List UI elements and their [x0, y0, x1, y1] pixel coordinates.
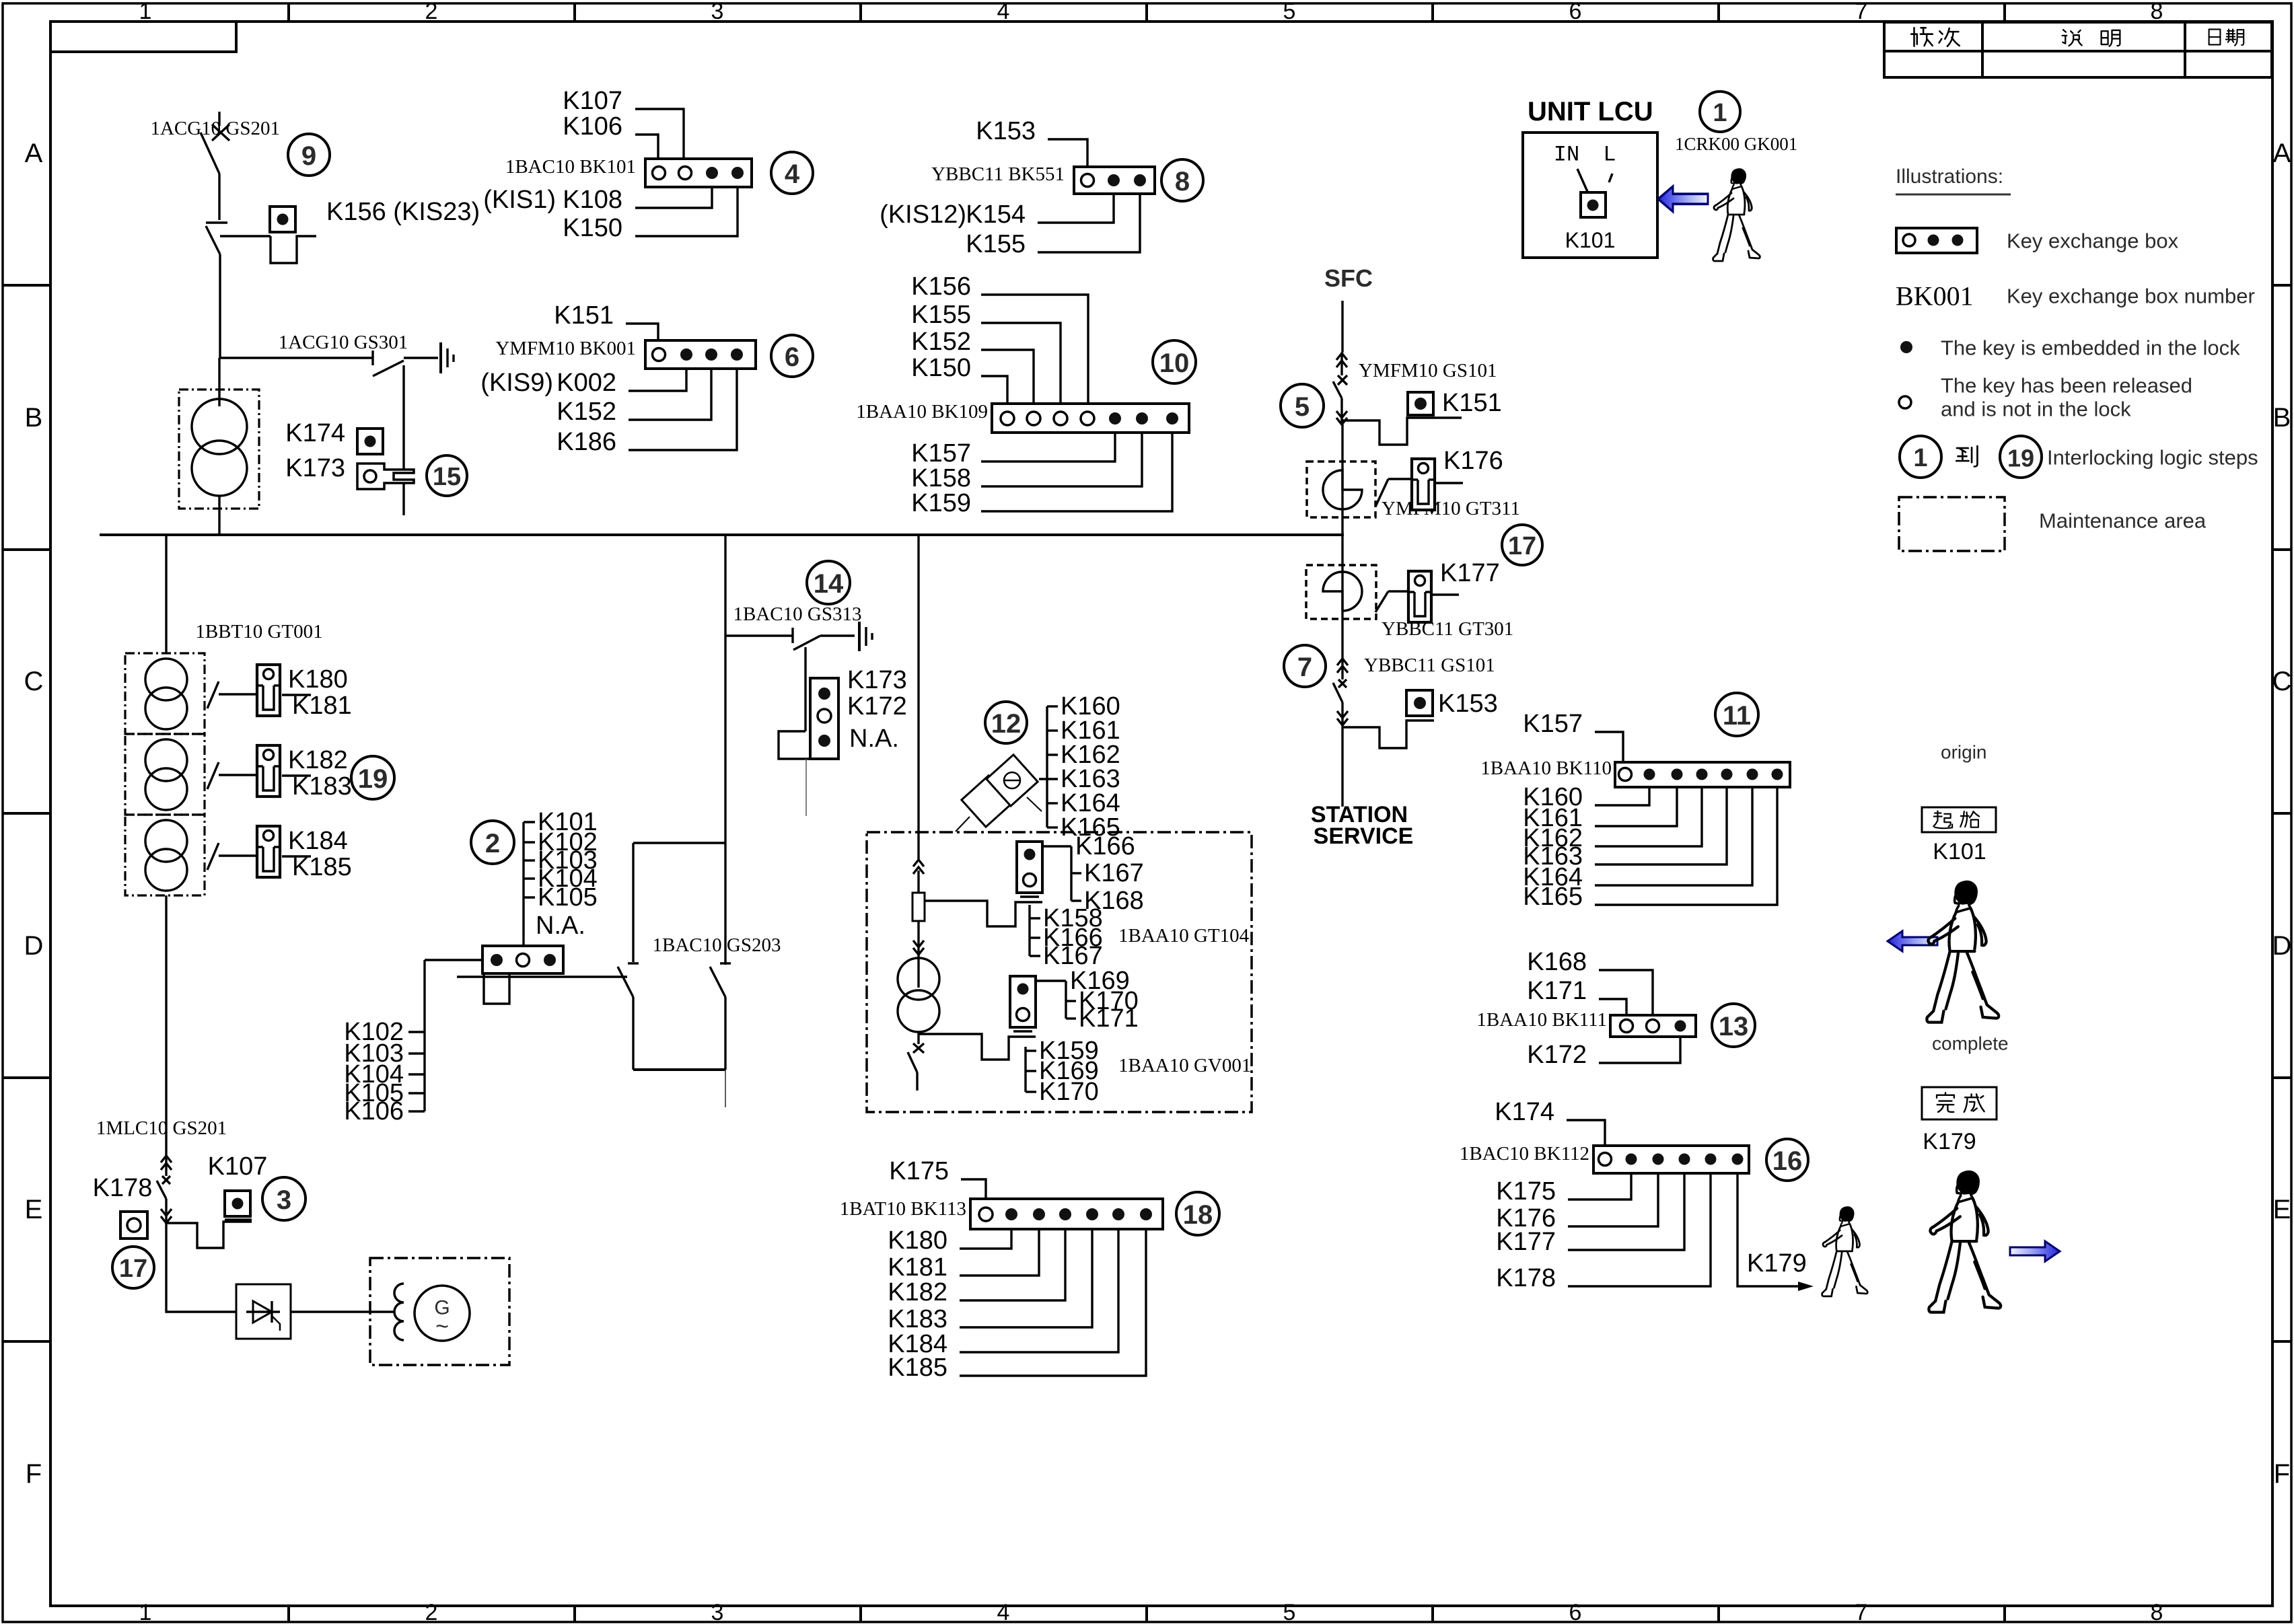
label K158 to BK109 [911, 433, 1142, 492]
svg-text:1BBT10 GT001: 1BBT10 GT001 [195, 621, 322, 642]
label K168 to BK111 [1527, 948, 1653, 1015]
wire rectifier to generator [291, 1311, 394, 1313]
svg-text:K185: K185 [292, 853, 352, 881]
key exchange box N.A. (step 2) [482, 946, 563, 1004]
svg-text:E: E [25, 1195, 43, 1224]
step 17 [1502, 525, 1542, 565]
svg-text:K101: K101 [1565, 228, 1616, 252]
row labels right [2272, 139, 2292, 1489]
legend embedded key [1900, 336, 2240, 360]
step 11 [1715, 693, 1758, 736]
winding switch 1 [207, 681, 311, 708]
svg-text:K159: K159 [911, 489, 971, 517]
UNIT LCU panel box [1523, 133, 1657, 258]
label K155 to BK551 [966, 194, 1140, 258]
K179 output arrow from BK112 [1737, 1173, 1814, 1291]
legend interlocking steps [1900, 436, 2258, 478]
label K175 to BK112 [1496, 1173, 1631, 1206]
svg-text:1ACG10 GS201: 1ACG10 GS201 [150, 118, 280, 139]
svg-text:B: B [25, 403, 43, 433]
step 13 [1712, 1004, 1755, 1047]
svg-text:K154: K154 [966, 200, 1026, 229]
label K157 to BK110 [1523, 710, 1623, 762]
label K181 to BK113 [888, 1229, 1039, 1282]
generator G circle [415, 1286, 470, 1341]
row labels left [24, 139, 44, 1489]
drop from bus to GT001 [165, 535, 167, 653]
svg-text:3: 3 [711, 0, 724, 24]
svg-text:14: 14 [814, 569, 844, 599]
svg-text:(KIS1): (KIS1) [483, 186, 556, 214]
svg-text:K167: K167 [1043, 942, 1103, 970]
svg-text:K106: K106 [563, 112, 622, 141]
svg-text:7: 7 [1855, 0, 1868, 24]
svg-text:K178: K178 [93, 1174, 153, 1202]
lock K156 (KIS23) [220, 198, 480, 263]
svg-text:19: 19 [358, 764, 388, 794]
label (KIS12) K154 to BK551 [880, 194, 1114, 229]
svg-text:YMFM10 BK001: YMFM10 BK001 [495, 338, 636, 359]
svg-text:K171: K171 [1079, 1004, 1139, 1033]
key exchange box 1BAA10 BK111 [1476, 1009, 1696, 1037]
label K150 to BK101 [563, 187, 738, 242]
label K155 to BK109 [911, 301, 1061, 404]
svg-text:K107: K107 [208, 1152, 268, 1181]
lock K101 (UNIT LCU) [1565, 192, 1616, 252]
key exchange box 1BAA10 BK110 [1480, 758, 1790, 787]
label K174 to BK112 [1495, 1098, 1605, 1146]
svg-text:D: D [2272, 931, 2292, 961]
step 15 [427, 455, 467, 496]
svg-text:K181: K181 [292, 692, 352, 720]
label K160 to BK110 [1523, 783, 1649, 811]
lock K151 on jog wire [1342, 389, 1502, 445]
step 3 [262, 1177, 306, 1220]
svg-text:K173: K173 [847, 666, 907, 694]
svg-text:K152: K152 [911, 328, 971, 356]
label K176 to BK112 [1496, 1173, 1658, 1232]
svg-text:K174: K174 [1495, 1098, 1554, 1126]
svg-text:5: 5 [1283, 0, 1296, 24]
svg-text:A: A [2273, 139, 2291, 168]
svg-text:A: A [25, 139, 43, 168]
step 18 [1176, 1192, 1219, 1235]
svg-text:K168: K168 [1527, 948, 1587, 976]
svg-text:Key exchange box: Key exchange box [2007, 229, 2179, 253]
thyristor rectifier box [236, 1284, 291, 1339]
label (KIS1) K108 to BK101 [483, 186, 712, 214]
svg-text:18: 18 [1183, 1200, 1213, 1230]
svg-text:K176: K176 [1443, 447, 1503, 475]
svg-text:1BAC10 GS203: 1BAC10 GS203 [653, 934, 781, 956]
jog wire fuse to upper key [925, 901, 1042, 926]
step 10 [1153, 340, 1196, 383]
truck disconnector 1MLC10 GS201 [157, 1156, 172, 1223]
title block header 版次 [1911, 28, 1960, 46]
label K165 to BK110 [1523, 787, 1777, 911]
svg-text:1BAT10 BK113: 1BAT10 BK113 [840, 1198, 966, 1220]
svg-text:K150: K150 [911, 354, 971, 382]
top column ticks [289, 3, 2005, 22]
bracket K159/K169/K170 [1026, 1037, 1099, 1106]
svg-text:7: 7 [1855, 1600, 1868, 1624]
svg-text:1BAC10 BK101: 1BAC10 BK101 [505, 156, 636, 178]
svg-text:4: 4 [997, 0, 1010, 24]
transformer 2-winding in dashed box (GS201 bay) [179, 358, 259, 535]
svg-text:6: 6 [1569, 0, 1582, 24]
step 6 [771, 335, 813, 377]
maintenance area box GT104/GV001 [867, 832, 1252, 1112]
step 1 [1700, 91, 1740, 132]
svg-text:1BAA10 BK110: 1BAA10 BK110 [1480, 758, 1612, 779]
aux transformer in GT104 [898, 958, 939, 1032]
svg-text:YMFM10 GT311: YMFM10 GT311 [1382, 498, 1520, 519]
label K185 to BK113 [888, 1229, 1146, 1382]
svg-text:8: 8 [2151, 0, 2163, 24]
svg-text:4: 4 [785, 159, 800, 189]
svg-text:2: 2 [425, 0, 438, 24]
label K164 to BK110 [1523, 787, 1752, 891]
svg-text:2: 2 [485, 829, 500, 858]
svg-text:K179: K179 [1923, 1129, 1976, 1154]
label K182 to BK113 [888, 1229, 1065, 1306]
label K156 to BK109 [911, 272, 1088, 404]
svg-text:7: 7 [1297, 653, 1312, 682]
label K163 to BK110 [1523, 787, 1727, 871]
STATION SERVICE label [1311, 802, 1413, 849]
svg-text:SERVICE: SERVICE [1314, 823, 1414, 849]
converter dashed box YBBC11 GT301 [1306, 565, 1513, 647]
step 12 [985, 702, 1027, 743]
key K182 K183 [257, 745, 352, 801]
disconnector 1BAC10 GS203 right pole [710, 963, 731, 1070]
svg-text:K158: K158 [911, 464, 971, 492]
svg-text:K177: K177 [1440, 559, 1500, 587]
wire to GS301 [219, 357, 373, 359]
svg-text:C: C [2272, 667, 2292, 696]
svg-text:K107: K107 [563, 87, 622, 115]
svg-text:19: 19 [2007, 445, 2034, 472]
label K152 to BK001 [557, 369, 711, 426]
svg-text:K153: K153 [976, 117, 1036, 145]
lock K174 [285, 419, 383, 454]
svg-text:K106: K106 [344, 1097, 404, 1125]
svg-text:13: 13 [1719, 1012, 1749, 1041]
lock K107 on jog wire [166, 1152, 267, 1248]
earthing switch 1BAC10 GS313 [725, 603, 872, 731]
key exchange box 1BAA10 BK109 [856, 401, 1189, 433]
svg-text:K184: K184 [288, 827, 348, 855]
title block table top-right [1884, 22, 2272, 77]
converter dashed box YMFM10 GT311 [1307, 422, 1520, 573]
svg-text:K171: K171 [1527, 977, 1587, 1005]
svg-text:K166: K166 [1075, 832, 1135, 860]
key box K173/K172/N.A. (GS313) [779, 666, 907, 816]
label K184 to BK113 [888, 1229, 1118, 1358]
disconnector 1ACG10 GS201 [150, 112, 280, 220]
svg-text:YMFM10 GS101: YMFM10 GS101 [1359, 360, 1497, 381]
svg-text:1BAA10 BK111: 1BAA10 BK111 [1476, 1009, 1607, 1031]
svg-text:K174: K174 [285, 419, 345, 447]
svg-text:1CRK00 GK001: 1CRK00 GK001 [1675, 134, 1797, 154]
person large walking [1929, 1171, 2001, 1312]
svg-text:complete: complete [1932, 1033, 2009, 1054]
svg-text:B: B [2273, 403, 2291, 433]
bottom column ticks [289, 1606, 2005, 1622]
generator stepup transformer 1BBT10 GT001 [125, 621, 323, 895]
label K157 to BK109 [911, 433, 1115, 468]
key K184 K185 [257, 826, 352, 881]
svg-text:origin: origin [1941, 742, 1986, 763]
svg-text:UNIT LCU: UNIT LCU [1528, 97, 1653, 126]
svg-text:D: D [24, 931, 44, 961]
step 19 [351, 756, 394, 799]
earthing truck symbol (step 12) [956, 755, 1042, 832]
label K107 to BK101 [563, 87, 684, 159]
step 14 [807, 561, 850, 604]
svg-text:11: 11 [1723, 701, 1751, 731]
left row ticks [3, 285, 50, 1341]
svg-text:K178: K178 [1496, 1264, 1556, 1292]
svg-text:K175: K175 [1496, 1177, 1556, 1206]
svg-text:K180: K180 [288, 665, 348, 694]
svg-text:4: 4 [997, 1600, 1010, 1624]
bracket K160-K165 [1039, 692, 1120, 842]
svg-text:6: 6 [1569, 1600, 1582, 1624]
jog wire transformer to lower key [919, 1034, 1036, 1060]
svg-text:5: 5 [1295, 392, 1310, 422]
svg-text:K157: K157 [911, 439, 971, 468]
svg-text:K175: K175 [889, 1157, 949, 1185]
fuse [912, 871, 925, 988]
column labels bottom [139, 1600, 2163, 1624]
step 16 [1766, 1139, 1808, 1181]
wire from N.A. box to K102 bracket [344, 960, 482, 1125]
label K162 to BK110 [1523, 787, 1702, 852]
label K150 to BK109 [911, 354, 1007, 404]
legend key exchange box [1896, 228, 2179, 253]
person origin [1927, 881, 1999, 1022]
svg-text:1BAC10 BK112: 1BAC10 BK112 [1460, 1143, 1589, 1165]
column labels top [139, 0, 2163, 24]
svg-text:K157: K157 [1523, 710, 1583, 738]
svg-text:The key has been released: The key has been released [1941, 374, 2192, 398]
svg-text:2: 2 [425, 1600, 438, 1624]
key K173 [285, 454, 414, 489]
svg-text:1: 1 [1913, 444, 1927, 472]
svg-text:K182: K182 [888, 1278, 947, 1306]
step 5 [1281, 384, 1324, 427]
svg-text:E: E [2273, 1195, 2291, 1224]
svg-text:K170: K170 [1039, 1078, 1099, 1106]
svg-text:K101: K101 [1933, 839, 1986, 864]
svg-text:K186: K186 [557, 428, 616, 456]
svg-text:K167: K167 [1084, 859, 1144, 887]
truck symbol upper YMFM10 GS101 [1333, 353, 1497, 425]
svg-text:K185: K185 [888, 1354, 947, 1382]
svg-text:K173: K173 [285, 454, 345, 482]
SFC feeder wire [1341, 301, 1343, 353]
main bus [100, 533, 1344, 536]
label K172 to BK111 [1527, 1037, 1680, 1069]
svg-text:K153: K153 [1438, 690, 1498, 718]
key exchange box YMFM10 BK001 [495, 338, 756, 369]
top-left revision box [50, 22, 236, 52]
svg-text:K181: K181 [888, 1253, 947, 1282]
svg-text:3: 3 [711, 1600, 724, 1624]
svg-text:9: 9 [301, 141, 316, 171]
svg-text:K151: K151 [1442, 389, 1502, 417]
svg-text:1ACG10 GS301: 1ACG10 GS301 [279, 332, 408, 353]
key K177 [1375, 559, 1500, 622]
label K180 to BK113 [888, 1226, 1011, 1255]
earthing switch 1ACG10 GS301 [279, 332, 454, 515]
完成 box [1922, 1087, 1997, 1119]
blue arrow to LCU [1658, 186, 1708, 212]
svg-text:BK001: BK001 [1896, 281, 1974, 311]
label K106 to BK101 [563, 112, 658, 159]
wire under N.A. box [457, 975, 627, 977]
svg-text:K151: K151 [554, 301, 614, 330]
Illustrations heading [1896, 165, 2011, 194]
wire GT001 to 1MLC10 GS201 [165, 895, 167, 1156]
svg-text:1: 1 [1713, 99, 1727, 127]
svg-text:K183: K183 [292, 772, 352, 801]
svg-text:F: F [26, 1459, 42, 1489]
svg-text:~: ~ [435, 1314, 449, 1339]
svg-text:Maintenance area: Maintenance area [2039, 509, 2207, 533]
svg-text:L: L [1603, 143, 1616, 168]
key exchange box 1BAC10 BK112 [1460, 1143, 1749, 1173]
svg-text:The key is embedded in the loc: The key is embedded in the lock [1941, 336, 2240, 360]
label K175 to BK113 [889, 1157, 986, 1199]
svg-text:K156 (KIS23): K156 (KIS23) [326, 198, 480, 226]
switch below transformer (GV001) [908, 1032, 924, 1091]
GS203 branch loop top [633, 843, 725, 962]
svg-text:8: 8 [2151, 1600, 2163, 1624]
svg-text:K183: K183 [888, 1305, 947, 1333]
svg-text:1BAA10 GV001: 1BAA10 GV001 [1118, 1055, 1251, 1076]
svg-text:10: 10 [1159, 348, 1190, 378]
person small walking [1822, 1207, 1868, 1296]
svg-text:K152: K152 [557, 398, 616, 426]
label K152 to BK109 [911, 328, 1034, 404]
blue arrow origin [1888, 931, 1937, 951]
svg-text:3: 3 [277, 1185, 291, 1215]
step 2 [471, 821, 514, 864]
breaker switch below GS201 [206, 223, 227, 358]
svg-text:Key exchange box number: Key exchange box number [2007, 285, 2255, 308]
svg-text:6: 6 [785, 342, 799, 372]
svg-text:N.A.: N.A. [849, 725, 899, 753]
legend maintenance area [1899, 497, 2207, 551]
chevrons above transformer [913, 940, 924, 955]
svg-text:17: 17 [1508, 532, 1536, 560]
svg-text:C: C [24, 667, 44, 696]
svg-text:F: F [2274, 1459, 2290, 1489]
svg-text:N.A.: N.A. [536, 912, 585, 940]
step 4 [771, 152, 813, 194]
generator dashed box [370, 1258, 509, 1365]
svg-text:K172: K172 [1527, 1041, 1587, 1069]
svg-text:1BAA10 BK109: 1BAA10 BK109 [856, 401, 988, 422]
svg-text:K182: K182 [288, 746, 348, 774]
svg-text:1: 1 [139, 1600, 152, 1624]
svg-text:1BAC10 GS313: 1BAC10 GS313 [733, 603, 862, 625]
label K153 to BK551 [976, 117, 1087, 167]
truck symbol lower YBBC11 GS101 [1333, 647, 1495, 727]
svg-text:17: 17 [119, 1255, 147, 1283]
svg-text:YBBC11 GT301: YBBC11 GT301 [1382, 618, 1513, 640]
svg-text:K155: K155 [911, 301, 971, 329]
label K171 to BK111 [1527, 977, 1626, 1015]
label K151 to BK001 [554, 301, 658, 340]
svg-text:K165: K165 [1523, 883, 1583, 911]
field winding coil [394, 1284, 404, 1340]
svg-text:K002: K002 [557, 369, 616, 397]
step 17 lower [112, 1247, 154, 1288]
起始 box [1922, 807, 1996, 832]
drop from bus to GT104 [917, 535, 919, 860]
svg-text:K108: K108 [563, 186, 622, 214]
key K178 (released) [93, 1174, 153, 1239]
svg-text:1BAA10 GT104: 1BAA10 GT104 [1118, 925, 1250, 947]
svg-text:K150: K150 [563, 214, 622, 242]
winding switch 3 [207, 843, 311, 870]
svg-text:K155: K155 [966, 230, 1026, 258]
svg-text:15: 15 [433, 463, 461, 491]
blue arrow complete [2010, 1241, 2060, 1261]
key exchange box 1BAT10 BK113 [840, 1198, 1163, 1229]
key exchange box 1BAC10 BK101 [505, 156, 752, 187]
legend BK001 [1896, 281, 2255, 311]
label K178 to BK112 [1496, 1173, 1711, 1292]
disconnector 1BAC10 GS203 left pole [618, 963, 639, 1070]
label K161 to BK110 [1523, 787, 1677, 832]
key K180 K181 [257, 665, 352, 720]
svg-text:K179: K179 [1747, 1249, 1807, 1278]
right row ticks [2272, 285, 2291, 1341]
key K176 [1375, 447, 1503, 510]
svg-text:8: 8 [1175, 167, 1190, 196]
svg-text:YBBC11 BK551: YBBC11 BK551 [931, 163, 1065, 185]
bracket K158/K166/K167 [1030, 904, 1103, 970]
svg-text:K172: K172 [847, 692, 907, 721]
label K159 to BK109 [911, 433, 1172, 517]
svg-text:YBBC11 GS101: YBBC11 GS101 [1364, 655, 1495, 676]
title block header 说明 [2063, 30, 2120, 46]
step 9 [288, 134, 330, 176]
label K183 to BK113 [888, 1229, 1092, 1333]
label K186 to BK001 [557, 369, 737, 456]
label K177 to BK112 [1496, 1173, 1684, 1256]
winding switch 2 [207, 762, 311, 789]
svg-text:K180: K180 [888, 1226, 947, 1255]
svg-text:16: 16 [1772, 1146, 1803, 1176]
bracket K101-K105 [524, 808, 598, 946]
truck chevrons at GT104 entry [913, 860, 924, 874]
label (KIS9) K002 to BK001 [480, 369, 686, 397]
IN / L selector [1554, 143, 1616, 194]
step 7 [1284, 645, 1326, 687]
svg-text:and is not in the lock: and is not in the lock [1941, 398, 2131, 421]
svg-text:Interlocking logic steps: Interlocking logic steps [2047, 446, 2258, 470]
key exchange box YBBC11 BK551 [931, 163, 1155, 194]
lock K153 on jog wire [1342, 690, 1498, 748]
svg-text:IN: IN [1554, 143, 1579, 168]
svg-text:SFC: SFC [1324, 264, 1373, 292]
svg-text:1MLC10 GS201: 1MLC10 GS201 [96, 1117, 227, 1139]
